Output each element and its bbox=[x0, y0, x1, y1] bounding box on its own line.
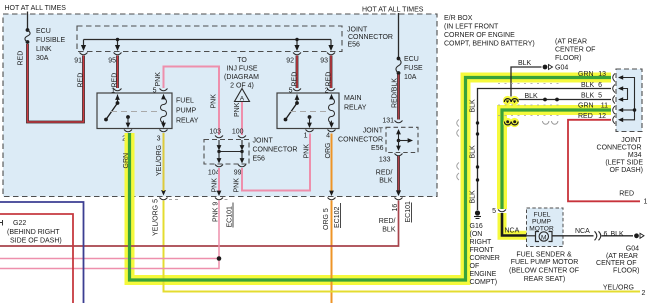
bracket at fuel pump pin 5 bbox=[498, 210, 506, 212]
svg-text:FUSIBLE: FUSIBLE bbox=[36, 37, 66, 44]
brackets below relays bbox=[124, 130, 132, 132]
wire PNK pin 104 down to EC101 bbox=[218, 168, 220, 191]
svg-text:30A: 30A bbox=[36, 55, 49, 62]
svg-text:JOINT: JOINT bbox=[363, 128, 384, 135]
svg-text:G16: G16 bbox=[470, 223, 483, 230]
svg-text:OF DASH): OF DASH) bbox=[610, 167, 643, 174]
svg-text:1: 1 bbox=[644, 199, 648, 206]
svg-text:NCA: NCA bbox=[575, 228, 590, 235]
brackets above E56 lower box bbox=[215, 136, 223, 138]
caption FUEL SENDER & FUEL PUMP MOTOR bbox=[509, 252, 579, 284]
svg-text:99: 99 bbox=[234, 170, 242, 177]
svg-text:M: M bbox=[541, 235, 547, 242]
inline connector marks (gray) on BLK chain bbox=[457, 120, 459, 181]
E/R box region (light blue dashed area) bbox=[3, 14, 437, 197]
highlight glow for traced circuit bbox=[130, 78, 612, 281]
svg-text:4: 4 bbox=[326, 133, 330, 140]
svg-text:M34: M34 bbox=[628, 152, 642, 159]
inline connector pair (gray, not highlighted) bbox=[543, 121, 558, 124]
motor symbol M bbox=[527, 235, 536, 237]
svg-text:2: 2 bbox=[642, 290, 646, 297]
svg-text:PNK: PNK bbox=[212, 178, 219, 193]
svg-text:RED: RED bbox=[326, 72, 333, 87]
svg-text:FLOOR): FLOOR) bbox=[613, 268, 639, 275]
highlighted GRN wire 2: M34 pin 11 left then down to fuel pump pin 5 bbox=[502, 110, 611, 209]
svg-text:RIGHT: RIGHT bbox=[470, 239, 493, 246]
svg-text:SIDE OF DASH): SIDE OF DASH) bbox=[10, 238, 62, 245]
svg-text:(DIAGRAM: (DIAGRAM bbox=[224, 74, 259, 81]
ground G04 (rear) bbox=[626, 233, 644, 252]
svg-text:COMPT): COMPT) bbox=[470, 279, 498, 286]
svg-text:ECU: ECU bbox=[404, 56, 419, 63]
svg-text:LINK: LINK bbox=[36, 46, 52, 53]
ground G04 bbox=[543, 65, 569, 72]
svg-text:91: 91 bbox=[74, 58, 82, 65]
brackets below E56 lower box bbox=[215, 165, 223, 167]
wire RED: fusible link down, right, up to E56 pin 91 bbox=[28, 44, 84, 122]
main relay box bbox=[277, 93, 367, 129]
wire BLK: M34 pin 6 left then down to G16 bbox=[476, 89, 611, 211]
inline connector pair (highlighted) lower bbox=[503, 118, 519, 127]
svg-text:RED: RED bbox=[619, 191, 634, 198]
svg-text:GRN: GRN bbox=[578, 71, 594, 78]
wire RED/BLK 133 down to EC101-16 bbox=[396, 156, 401, 196]
svg-text:RED/: RED/ bbox=[376, 170, 393, 177]
G22 caption bbox=[0, 220, 62, 245]
svg-text:REAR SEAT): REAR SEAT) bbox=[524, 276, 566, 283]
svg-text:PUMP: PUMP bbox=[532, 219, 552, 226]
M34 caption bbox=[597, 137, 644, 174]
svg-text:CENTER OF: CENTER OF bbox=[596, 260, 636, 267]
TO INJ FUSE caption bbox=[224, 57, 259, 90]
EC101 bracket marks on box edge bbox=[160, 198, 168, 200]
svg-text:(BELOW CENTER OF: (BELOW CENTER OF bbox=[509, 268, 579, 275]
wire BLK to ground G04 bbox=[511, 60, 542, 97]
svg-text:BLK: BLK bbox=[470, 99, 477, 113]
svg-text:YEL/ORG 5: YEL/ORG 5 bbox=[153, 199, 160, 236]
svg-text:FLOOR): FLOOR) bbox=[555, 55, 581, 62]
svg-text:103: 103 bbox=[209, 129, 221, 136]
wire to ECU fuse bbox=[398, 13, 400, 58]
svg-text:FUSE: FUSE bbox=[404, 65, 423, 72]
svg-text:EC101: EC101 bbox=[405, 201, 412, 223]
svg-text:INJ FUSE: INJ FUSE bbox=[226, 66, 257, 73]
svg-text:12: 12 bbox=[598, 113, 606, 120]
svg-text:FUEL: FUEL bbox=[176, 98, 194, 105]
svg-text:RELAY: RELAY bbox=[176, 118, 199, 125]
svg-text:100: 100 bbox=[232, 129, 244, 136]
wire PNK from EC101-9 down, junction, left off page bbox=[0, 201, 221, 269]
joint connector E56 (lower) bbox=[204, 138, 297, 165]
svg-text:YEL/ORG: YEL/ORG bbox=[603, 285, 634, 292]
svg-text:RED: RED bbox=[112, 73, 119, 88]
highlighted GRN wire: relay pin2 down, right, up, right to M34 pin 13 bbox=[130, 78, 612, 281]
svg-text:MAIN: MAIN bbox=[344, 95, 362, 102]
svg-text:ORG 5: ORG 5 bbox=[323, 208, 330, 230]
wire YEL/ORG relay pin3 down then right to page edge (2) bbox=[164, 133, 641, 292]
G22 box wires (navy / red off page) bbox=[0, 202, 84, 303]
M34 pin brackets bbox=[613, 74, 615, 124]
svg-text:NCA: NCA bbox=[505, 228, 520, 235]
svg-text:PNK: PNK bbox=[211, 94, 218, 109]
svg-text:CENTER OF: CENTER OF bbox=[555, 47, 595, 54]
svg-text:3: 3 bbox=[157, 136, 161, 143]
svg-text:ECU: ECU bbox=[36, 28, 51, 35]
svg-text:RED: RED bbox=[78, 73, 85, 88]
svg-text:E56: E56 bbox=[348, 42, 361, 49]
svg-text:A: A bbox=[240, 96, 245, 103]
svg-text:(ON: (ON bbox=[470, 231, 483, 238]
svg-text:JOINT: JOINT bbox=[621, 137, 642, 144]
svg-text:HOT AT ALL TIMES: HOT AT ALL TIMES bbox=[5, 5, 67, 12]
svg-text:5: 5 bbox=[598, 93, 602, 100]
svg-text:CONNECTOR: CONNECTOR bbox=[253, 147, 298, 154]
wire RED E56-92 to main relay pin 5 bbox=[296, 56, 299, 89]
svg-text:RED: RED bbox=[292, 72, 299, 87]
svg-text:CORNER OF ENGINE: CORNER OF ENGINE bbox=[444, 32, 515, 39]
svg-text:CONNECTOR: CONNECTOR bbox=[338, 137, 383, 144]
inline connector pair (highlighted) on G04/BLK5 wire bbox=[503, 96, 519, 105]
joint connector E56 (top) bbox=[77, 26, 393, 52]
wire RED: M34 pin 12 left, down, right to fuel sender (1) bbox=[568, 120, 640, 202]
svg-text:133: 133 bbox=[379, 157, 391, 164]
wire RED/BLK fuse to joint connector E56 131 bbox=[397, 75, 400, 120]
svg-text:1: 1 bbox=[304, 133, 308, 140]
G16 caption bbox=[470, 223, 500, 286]
fuel pump relay box bbox=[97, 93, 199, 129]
svg-text:5: 5 bbox=[492, 208, 496, 215]
svg-text:104: 104 bbox=[208, 170, 220, 177]
wire PNK pin 99 down right up to main relay pin 1 bbox=[242, 134, 310, 191]
wire RED E56-95 to fuel pump relay pin 1 bbox=[116, 56, 119, 89]
ECU fuse 10A bbox=[396, 56, 423, 81]
highlighted NCA wire: pin 5 to fuel pump motor bbox=[502, 213, 527, 236]
svg-text:PNK: PNK bbox=[304, 144, 311, 159]
svg-text:CONNECTOR: CONNECTOR bbox=[348, 34, 393, 41]
caption (AT REAR CENTER OF FLOOR) for G04 bbox=[555, 39, 595, 63]
wire ORG lower segment to page bottom bbox=[331, 201, 333, 303]
small gray tick rows near green wires bbox=[498, 84, 562, 116]
svg-text:YEL/ORG: YEL/ORG bbox=[156, 145, 163, 176]
svg-text:BLK: BLK bbox=[518, 60, 532, 67]
svg-text:(AT REAR: (AT REAR bbox=[606, 253, 638, 260]
svg-text:GRN: GRN bbox=[578, 103, 594, 110]
svg-text:RED: RED bbox=[18, 51, 25, 66]
svg-text:BLK: BLK bbox=[525, 93, 539, 100]
svg-text:ENGINE: ENGINE bbox=[470, 271, 497, 278]
svg-text:95: 95 bbox=[108, 58, 116, 65]
svg-text:E56: E56 bbox=[253, 156, 266, 163]
svg-text:E56: E56 bbox=[371, 145, 384, 152]
svg-text:FUEL PUMP MOTOR: FUEL PUMP MOTOR bbox=[511, 259, 579, 266]
svg-text:G04: G04 bbox=[626, 246, 639, 253]
svg-text:6: 6 bbox=[598, 82, 602, 89]
svg-text:OF: OF bbox=[470, 263, 480, 270]
joint connector E56 (right, 131/133) bbox=[338, 127, 418, 152]
svg-text:PNK: PNK bbox=[155, 72, 162, 87]
svg-text:131: 131 bbox=[382, 118, 394, 125]
svg-text:PNK: PNK bbox=[234, 102, 241, 117]
svg-text:13: 13 bbox=[598, 71, 606, 78]
svg-text:(AT REAR: (AT REAR bbox=[555, 39, 587, 46]
wire PNK: fuel pump relay pin5 up and right to E56 pin 103 bbox=[164, 67, 220, 136]
wire ORG: main relay pin 4 down to bottom bbox=[331, 134, 333, 192]
svg-text:BLK: BLK bbox=[379, 178, 393, 185]
svg-text:11: 11 bbox=[601, 103, 608, 110]
svg-text:93: 93 bbox=[320, 58, 328, 65]
svg-text:FRONT: FRONT bbox=[470, 247, 495, 254]
E/R BOX caption bbox=[444, 15, 535, 48]
svg-text:BLK: BLK bbox=[611, 231, 625, 238]
svg-text:EC102: EC102 bbox=[334, 206, 341, 228]
svg-text:92: 92 bbox=[286, 58, 294, 65]
svg-text:BLK: BLK bbox=[382, 227, 396, 234]
wire BLK5 to M34 pin 5 bbox=[519, 93, 612, 101]
svg-text:CORNER: CORNER bbox=[470, 255, 500, 262]
svg-text:BLK: BLK bbox=[581, 82, 595, 89]
ECU fusible link 30A bbox=[25, 28, 66, 62]
svg-text:10A: 10A bbox=[404, 74, 417, 81]
ground G16 bbox=[474, 210, 481, 218]
caption (AT REAR CENTER OF FLOOR) lower right bbox=[596, 253, 639, 275]
svg-text:FUEL: FUEL bbox=[534, 212, 551, 219]
svg-text:6: 6 bbox=[604, 231, 608, 238]
svg-text:JOINT: JOINT bbox=[253, 138, 274, 145]
wire RED/BLK from EC101-16 down and left off page bbox=[0, 201, 399, 247]
joint connector M34 box bbox=[616, 69, 642, 132]
wire: feed to ECU fusible link bbox=[27, 12, 29, 31]
svg-text:PNK: PNK bbox=[234, 178, 241, 193]
svg-text:BLK: BLK bbox=[581, 93, 595, 100]
pin brackets under E56 top box bbox=[80, 53, 88, 55]
svg-text:G22: G22 bbox=[13, 220, 26, 227]
fuel pump motor box bbox=[527, 208, 564, 247]
svg-text:BLK: BLK bbox=[470, 190, 477, 204]
svg-text:CONNECTOR: CONNECTOR bbox=[597, 145, 642, 152]
svg-text:RED/: RED/ bbox=[379, 218, 396, 225]
svg-text:E/R BOX: E/R BOX bbox=[444, 15, 473, 22]
svg-text:RELAY: RELAY bbox=[344, 105, 367, 112]
off-page triangle A bbox=[235, 89, 250, 103]
svg-text:RED: RED bbox=[578, 113, 593, 120]
svg-text:COMPT, BEHIND BATTERY): COMPT, BEHIND BATTERY) bbox=[444, 41, 535, 48]
svg-text:PUMP: PUMP bbox=[176, 108, 197, 115]
svg-text:FUEL SENDER &: FUEL SENDER & bbox=[516, 252, 572, 259]
pin brackets above relays bbox=[114, 89, 122, 91]
svg-text:(LEFT SIDE: (LEFT SIDE bbox=[605, 160, 643, 167]
svg-text:GRN: GRN bbox=[123, 153, 130, 169]
wire RED E56-93 to main relay pin 2 bbox=[330, 56, 333, 89]
wire PNK: triangle A down to E56 pin 100 bbox=[241, 102, 243, 135]
svg-text:TO: TO bbox=[237, 57, 247, 64]
svg-text:EC101: EC101 bbox=[227, 206, 234, 228]
svg-text:(IN LEFT FRONT: (IN LEFT FRONT bbox=[444, 24, 499, 31]
svg-text:(BEHIND RIGHT: (BEHIND RIGHT bbox=[7, 229, 60, 236]
wire NCA: motor to inline connector to BLK to G04 bbox=[552, 228, 633, 240]
svg-text:JOINT: JOINT bbox=[347, 27, 368, 34]
svg-text:BLK: BLK bbox=[470, 145, 477, 159]
svg-text:G04: G04 bbox=[555, 65, 568, 72]
arrowheads on YEL wire at EC101 bbox=[161, 190, 166, 195]
svg-text:HOT AT ALL TIMES: HOT AT ALL TIMES bbox=[362, 7, 424, 14]
